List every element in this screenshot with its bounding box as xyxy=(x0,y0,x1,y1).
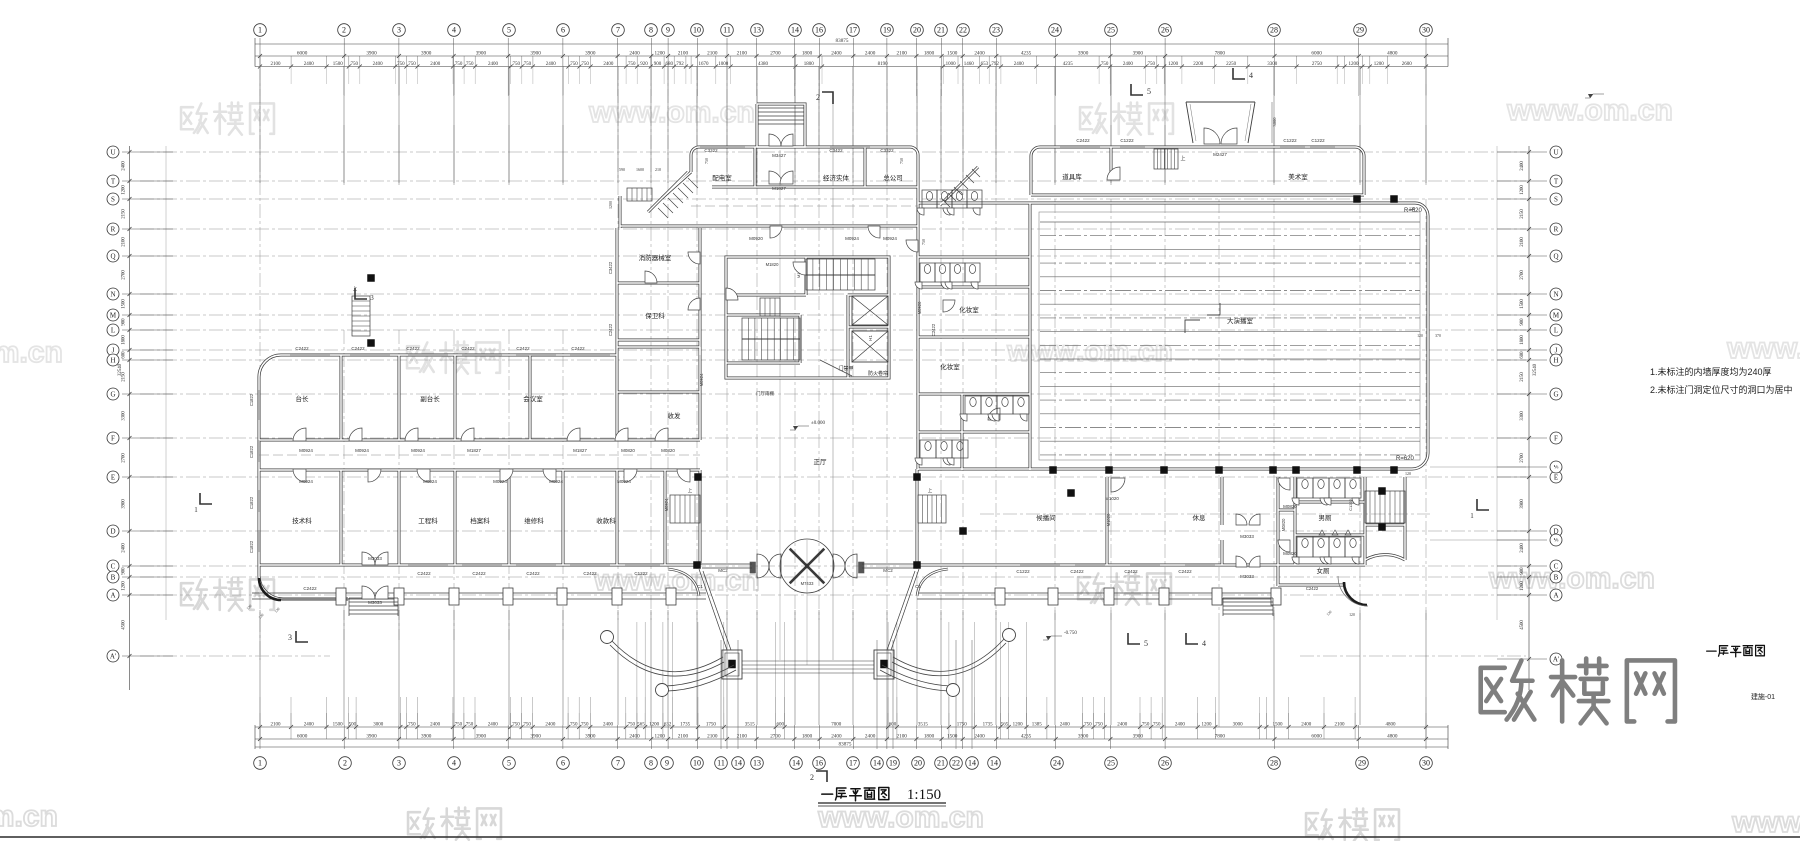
svg-text:590: 590 xyxy=(619,167,625,172)
svg-text:1200: 1200 xyxy=(122,581,127,591)
svg-text:1: 1 xyxy=(1470,512,1474,520)
svg-text:30: 30 xyxy=(1422,26,1430,35)
svg-text:2400: 2400 xyxy=(373,62,384,67)
svg-text:门禁甲: 门禁甲 xyxy=(838,365,853,372)
svg-text:4235: 4235 xyxy=(1063,62,1074,67)
svg-text:6000: 6000 xyxy=(1311,734,1322,740)
svg-text:2200: 2200 xyxy=(1193,62,1204,67)
svg-text:900: 900 xyxy=(654,62,662,67)
svg-text:2400: 2400 xyxy=(488,723,499,728)
svg-text:20: 20 xyxy=(914,759,922,768)
svg-text:120: 120 xyxy=(1417,334,1423,338)
svg-text:30: 30 xyxy=(1422,759,1430,768)
svg-text:S: S xyxy=(1554,195,1558,203)
svg-text:2400: 2400 xyxy=(488,62,499,67)
svg-text:4: 4 xyxy=(452,759,456,768)
svg-text:C3422: C3422 xyxy=(608,261,613,274)
svg-text:M0924: M0924 xyxy=(299,448,313,453)
svg-text:R: R xyxy=(1554,225,1559,233)
svg-text:2.未标注门洞定位尺寸的洞口为居中: 2.未标注门洞定位尺寸的洞口为居中 xyxy=(1650,384,1793,395)
svg-text:900: 900 xyxy=(122,318,127,326)
svg-text:792: 792 xyxy=(676,62,684,67)
svg-text:1200: 1200 xyxy=(1168,62,1179,67)
svg-text:83875: 83875 xyxy=(839,742,852,748)
svg-text:750: 750 xyxy=(628,723,636,728)
svg-text:台长: 台长 xyxy=(296,394,310,403)
svg-text:900: 900 xyxy=(1520,318,1525,326)
svg-text:25: 25 xyxy=(1107,759,1115,768)
svg-text:920: 920 xyxy=(640,62,648,67)
svg-text:C1222: C1222 xyxy=(1348,498,1353,511)
svg-text:3515: 3515 xyxy=(745,723,756,728)
svg-text:M3427: M3427 xyxy=(772,153,786,158)
svg-text:13: 13 xyxy=(753,26,761,35)
svg-text:2400: 2400 xyxy=(865,50,876,56)
svg-text:Q: Q xyxy=(1553,252,1558,260)
svg-text:7000: 7000 xyxy=(831,723,842,728)
svg-text:14: 14 xyxy=(968,759,976,768)
svg-text:1500: 1500 xyxy=(1520,299,1525,309)
svg-text:23: 23 xyxy=(992,26,1000,35)
svg-text:7: 7 xyxy=(616,759,620,768)
svg-text:2100: 2100 xyxy=(707,50,718,56)
svg-text:26: 26 xyxy=(1161,759,1169,768)
svg-text:4235: 4235 xyxy=(1021,734,1032,740)
svg-text:21: 21 xyxy=(937,26,945,35)
svg-text:3300: 3300 xyxy=(1520,411,1525,421)
svg-text:C2422: C2422 xyxy=(931,323,936,336)
svg-text:1735: 1735 xyxy=(680,723,691,728)
svg-text:3000: 3000 xyxy=(1272,117,1277,127)
svg-text:4800: 4800 xyxy=(1387,734,1398,740)
svg-text:M0924: M0924 xyxy=(355,448,369,453)
svg-text:1200: 1200 xyxy=(1374,62,1385,67)
svg-text:E: E xyxy=(1554,473,1558,481)
svg-text:1500: 1500 xyxy=(122,299,127,309)
svg-text:750: 750 xyxy=(523,723,531,728)
svg-text:750: 750 xyxy=(921,239,926,245)
svg-text:2100: 2100 xyxy=(737,50,748,56)
svg-text:653: 653 xyxy=(981,62,989,67)
svg-text:C3422: C3422 xyxy=(829,148,843,153)
svg-text:D: D xyxy=(110,527,115,535)
svg-text:750: 750 xyxy=(512,723,520,728)
svg-text:2400: 2400 xyxy=(1520,543,1525,553)
svg-text:24: 24 xyxy=(1053,759,1061,768)
svg-text:www.om.cn: www.om.cn xyxy=(1488,562,1655,595)
svg-text:T: T xyxy=(111,177,116,185)
svg-text:7: 7 xyxy=(616,26,620,35)
svg-text:750: 750 xyxy=(408,723,416,728)
svg-text:5: 5 xyxy=(1144,639,1148,648)
svg-text:C2422: C2422 xyxy=(1124,569,1138,574)
svg-text:29: 29 xyxy=(1356,26,1364,35)
svg-text:2400: 2400 xyxy=(831,50,842,56)
svg-text:收发: 收发 xyxy=(668,411,682,420)
svg-text:G: G xyxy=(1553,390,1558,398)
svg-text:收款科: 收款科 xyxy=(596,516,616,525)
svg-text:3900: 3900 xyxy=(366,50,377,56)
svg-text:1750: 1750 xyxy=(706,723,717,728)
svg-text:750: 750 xyxy=(397,62,405,67)
svg-text:210: 210 xyxy=(655,167,661,172)
svg-text:M2427: M2427 xyxy=(1213,152,1227,157)
svg-text:1500: 1500 xyxy=(333,62,344,67)
svg-text:C2422: C2422 xyxy=(1178,569,1192,574)
svg-text:10: 10 xyxy=(693,759,701,768)
svg-text:www.om.cn: www.om.cn xyxy=(0,800,58,833)
svg-text:消防器械室: 消防器械室 xyxy=(639,253,672,262)
svg-text:建施-01: 建施-01 xyxy=(1751,692,1775,701)
svg-text:2100: 2100 xyxy=(897,734,908,740)
svg-text:1200: 1200 xyxy=(1013,723,1024,728)
svg-text:3: 3 xyxy=(397,26,401,35)
svg-text:正厅: 正厅 xyxy=(814,458,828,466)
svg-text:M0924: M0924 xyxy=(617,479,631,484)
svg-text:F: F xyxy=(111,434,115,442)
svg-text:750: 750 xyxy=(466,62,474,67)
svg-text:1750: 1750 xyxy=(957,723,968,728)
svg-text:3900: 3900 xyxy=(585,50,596,56)
svg-text:副台长: 副台长 xyxy=(420,394,440,403)
svg-text:1800: 1800 xyxy=(924,734,935,740)
svg-text:750: 750 xyxy=(455,723,463,728)
svg-text:3300: 3300 xyxy=(1267,62,1278,67)
svg-text:A': A' xyxy=(110,652,116,660)
svg-text:3300: 3300 xyxy=(122,411,127,421)
svg-text:L: L xyxy=(1554,326,1558,334)
svg-text:1800: 1800 xyxy=(802,50,813,56)
svg-text:1800: 1800 xyxy=(1520,335,1525,345)
svg-text:5: 5 xyxy=(507,759,511,768)
svg-text:1200: 1200 xyxy=(1202,723,1213,728)
svg-text:2400: 2400 xyxy=(629,50,640,56)
svg-text:www.om.cn: www.om.cn xyxy=(1506,94,1673,127)
svg-text:M0820: M0820 xyxy=(1283,504,1297,509)
svg-text:B: B xyxy=(111,573,116,581)
svg-text:750: 750 xyxy=(1095,723,1103,728)
svg-text:2100: 2100 xyxy=(122,237,127,247)
svg-text:1200: 1200 xyxy=(655,734,666,740)
svg-text:M7433: M7433 xyxy=(801,581,814,586)
svg-text:3900: 3900 xyxy=(1078,734,1089,740)
svg-text:3900: 3900 xyxy=(1520,499,1525,509)
svg-text:C1222: C1222 xyxy=(1016,569,1030,574)
svg-text:M0920: M0920 xyxy=(917,301,922,314)
svg-text:C2422: C2422 xyxy=(571,346,585,351)
svg-text:2400: 2400 xyxy=(629,734,640,740)
svg-text:总公司: 总公司 xyxy=(883,173,903,182)
svg-text:6000: 6000 xyxy=(1311,50,1322,56)
svg-text:H: H xyxy=(1553,356,1558,364)
svg-text:化妆室: 化妆室 xyxy=(959,305,979,314)
svg-text:3900: 3900 xyxy=(421,734,432,740)
svg-text:1200: 1200 xyxy=(122,185,127,195)
svg-text:1000: 1000 xyxy=(946,62,957,67)
svg-text:2400: 2400 xyxy=(974,50,985,56)
svg-text:2250: 2250 xyxy=(1226,62,1237,67)
svg-text:7800: 7800 xyxy=(1215,50,1226,56)
svg-text:M0924: M0924 xyxy=(299,479,313,484)
svg-text:C: C xyxy=(111,562,116,570)
svg-text:3: 3 xyxy=(370,294,374,302)
svg-text:1460: 1460 xyxy=(964,62,975,67)
svg-text:⅙: ⅙ xyxy=(1554,538,1559,544)
svg-text:C2422: C2422 xyxy=(526,571,540,576)
svg-text:C1822: C1822 xyxy=(249,540,254,553)
svg-text:C: C xyxy=(1554,562,1559,570)
svg-text:500: 500 xyxy=(349,723,357,728)
svg-text:工程科: 工程科 xyxy=(418,516,438,525)
svg-text:900: 900 xyxy=(122,567,127,575)
svg-text:保卫科: 保卫科 xyxy=(645,311,665,320)
svg-text:C2422: C2422 xyxy=(472,571,486,576)
svg-text:2700: 2700 xyxy=(1520,453,1525,463)
svg-text:3: 3 xyxy=(288,633,292,642)
svg-text:4800: 4800 xyxy=(1386,723,1397,728)
svg-text:C2422: C2422 xyxy=(461,346,475,351)
svg-text:6000: 6000 xyxy=(297,734,308,740)
svg-text:750: 750 xyxy=(455,62,463,67)
svg-text:16: 16 xyxy=(815,26,823,35)
svg-text:19: 19 xyxy=(889,759,897,768)
svg-text:750: 750 xyxy=(1101,62,1109,67)
svg-text:C2422: C2422 xyxy=(351,346,365,351)
svg-text:1.未标注的内墙厚度均为240厚: 1.未标注的内墙厚度均为240厚 xyxy=(1650,366,1772,377)
svg-text:C1822: C1822 xyxy=(249,393,254,406)
svg-text:C2422: C2422 xyxy=(516,346,530,351)
svg-text:2: 2 xyxy=(342,26,346,35)
svg-text:M0924: M0924 xyxy=(549,479,563,484)
svg-text:2400: 2400 xyxy=(304,62,315,67)
svg-text:-0.750: -0.750 xyxy=(1064,631,1077,636)
svg-text:MC2: MC2 xyxy=(883,568,893,573)
svg-text:750: 750 xyxy=(513,62,521,67)
svg-text:F: F xyxy=(1554,434,1558,442)
svg-text:M1820: M1820 xyxy=(766,262,779,267)
svg-text:2400: 2400 xyxy=(1175,723,1186,728)
svg-text:2150: 2150 xyxy=(1520,372,1525,382)
svg-text:1670: 1670 xyxy=(699,62,710,67)
svg-text:C1822: C1822 xyxy=(249,496,254,509)
svg-text:792: 792 xyxy=(991,62,999,67)
svg-text:www.om.cn: www.om.cn xyxy=(0,336,63,369)
svg-text:2100: 2100 xyxy=(678,50,689,56)
svg-text:化妆室: 化妆室 xyxy=(940,362,960,371)
svg-text:2100: 2100 xyxy=(1520,237,1525,247)
svg-text:R: R xyxy=(111,225,116,233)
svg-text:C1222: C1222 xyxy=(1311,138,1325,143)
svg-text:M0920: M0920 xyxy=(749,236,763,241)
svg-text:7800: 7800 xyxy=(1215,734,1226,740)
svg-text:11: 11 xyxy=(717,759,725,768)
svg-text:C2422: C2422 xyxy=(303,586,317,591)
svg-text:3900: 3900 xyxy=(366,734,377,740)
svg-text:120: 120 xyxy=(1349,613,1355,617)
svg-text:750: 750 xyxy=(1142,723,1150,728)
svg-text:750: 750 xyxy=(570,62,578,67)
svg-text:750: 750 xyxy=(581,723,589,728)
svg-text:R=620: R=620 xyxy=(1404,208,1423,214)
svg-text:750: 750 xyxy=(1153,723,1161,728)
svg-text:1200: 1200 xyxy=(649,723,660,728)
svg-text:G: G xyxy=(110,390,115,398)
svg-text:4500: 4500 xyxy=(1520,620,1525,630)
svg-text:3000: 3000 xyxy=(373,723,384,728)
svg-text:16: 16 xyxy=(815,759,823,768)
svg-text:3000: 3000 xyxy=(1233,723,1244,728)
svg-text:2400: 2400 xyxy=(430,723,441,728)
svg-text:1800: 1800 xyxy=(804,62,815,67)
svg-text:N: N xyxy=(110,290,115,298)
svg-text:www.om.cn: www.om.cn xyxy=(1726,332,1800,365)
svg-text:2700: 2700 xyxy=(770,50,781,56)
svg-text:4: 4 xyxy=(1249,71,1253,80)
svg-text:M0820: M0820 xyxy=(1281,518,1286,531)
svg-text:19: 19 xyxy=(883,26,891,35)
svg-text:J: J xyxy=(1555,346,1558,354)
svg-text:M1827: M1827 xyxy=(573,448,587,453)
svg-text:M3033: M3033 xyxy=(368,600,382,605)
svg-text:1200: 1200 xyxy=(655,50,666,56)
svg-text:2100: 2100 xyxy=(1335,723,1346,728)
svg-text:2600: 2600 xyxy=(1402,62,1413,67)
svg-text:U: U xyxy=(110,148,115,156)
svg-text:13: 13 xyxy=(753,759,761,768)
svg-text:2400: 2400 xyxy=(1014,62,1025,67)
svg-text:A: A xyxy=(1553,591,1558,599)
svg-text:M0924: M0924 xyxy=(664,498,669,511)
svg-text:120: 120 xyxy=(1405,471,1411,476)
svg-text:1385: 1385 xyxy=(1032,723,1043,728)
svg-text:22: 22 xyxy=(959,26,967,35)
svg-text:21: 21 xyxy=(937,759,945,768)
svg-text:技术科: 技术科 xyxy=(292,516,312,525)
svg-text:14: 14 xyxy=(791,26,799,35)
svg-text:M0924: M0924 xyxy=(493,479,507,484)
svg-text:道具库: 道具库 xyxy=(1062,172,1082,181)
svg-text:3: 3 xyxy=(397,759,401,768)
svg-text:20: 20 xyxy=(913,26,921,35)
svg-text:1:150: 1:150 xyxy=(907,787,941,803)
svg-text:J: J xyxy=(112,346,115,354)
svg-text:4380: 4380 xyxy=(758,62,769,67)
svg-text:1: 1 xyxy=(258,26,262,35)
svg-text:M0924: M0924 xyxy=(883,236,897,241)
svg-text:14: 14 xyxy=(792,759,800,768)
svg-text:上: 上 xyxy=(928,487,933,493)
svg-text:2400: 2400 xyxy=(603,723,614,728)
svg-text:E: E xyxy=(111,473,115,481)
svg-text:⅙: ⅙ xyxy=(1554,465,1559,471)
svg-text:28: 28 xyxy=(1270,26,1278,35)
svg-text:C2422: C2422 xyxy=(295,346,309,351)
svg-text:大演播室: 大演播室 xyxy=(1227,316,1254,325)
svg-text:2400: 2400 xyxy=(122,543,127,553)
svg-text:C2422: C2422 xyxy=(406,346,420,351)
svg-text:17: 17 xyxy=(849,759,857,768)
svg-text:H: H xyxy=(110,356,115,364)
svg-text:维修科: 维修科 xyxy=(524,516,544,525)
svg-text:2400: 2400 xyxy=(545,723,556,728)
svg-text:防火卷帘: 防火卷帘 xyxy=(868,370,888,377)
svg-text:3900: 3900 xyxy=(1133,50,1144,56)
svg-text:M1020: M1020 xyxy=(1105,496,1119,501)
svg-text:C3322: C3322 xyxy=(704,148,718,153)
svg-text:C2422: C2422 xyxy=(608,323,613,336)
svg-text:1800: 1800 xyxy=(122,335,127,345)
svg-text:M0924: M0924 xyxy=(411,448,425,453)
svg-text:M1827: M1827 xyxy=(772,186,786,191)
svg-text:750: 750 xyxy=(524,62,532,67)
svg-text:83875: 83875 xyxy=(836,38,849,44)
svg-text:6000: 6000 xyxy=(297,50,308,56)
svg-text:600: 600 xyxy=(1520,351,1525,359)
svg-text:C1: C1 xyxy=(915,584,921,589)
svg-text:H1: H1 xyxy=(868,335,873,341)
svg-text:M0924: M0924 xyxy=(845,236,859,241)
svg-text:1800: 1800 xyxy=(802,734,813,740)
svg-text:750: 750 xyxy=(466,723,474,728)
svg-text:2400: 2400 xyxy=(1301,723,1312,728)
svg-text:C3322: C3322 xyxy=(880,148,894,153)
svg-text:4800: 4800 xyxy=(1387,50,1398,56)
svg-text:4235: 4235 xyxy=(1021,50,1032,56)
svg-text:2100: 2100 xyxy=(897,50,908,56)
svg-text:美术室: 美术室 xyxy=(1288,172,1308,181)
svg-text:2400: 2400 xyxy=(974,734,985,740)
svg-text:1: 1 xyxy=(194,506,198,514)
svg-text:A: A xyxy=(110,591,115,599)
svg-text:3900: 3900 xyxy=(476,734,487,740)
svg-text:C1222: C1222 xyxy=(1283,138,1297,143)
svg-text:32540: 32540 xyxy=(1533,363,1538,376)
svg-text:3900: 3900 xyxy=(1133,734,1144,740)
svg-text:4: 4 xyxy=(1202,639,1206,648)
svg-text:C1822: C1822 xyxy=(249,445,254,458)
svg-text:2700: 2700 xyxy=(1520,270,1525,280)
svg-text:2400: 2400 xyxy=(1060,723,1071,728)
svg-text:750: 750 xyxy=(1084,723,1092,728)
svg-text:2400: 2400 xyxy=(430,62,441,67)
svg-text:会议室: 会议室 xyxy=(523,394,543,403)
svg-text:1200: 1200 xyxy=(1520,581,1525,591)
svg-text:14: 14 xyxy=(873,759,881,768)
svg-text:750: 750 xyxy=(581,62,589,67)
svg-text:2400: 2400 xyxy=(1117,723,1128,728)
svg-text:5: 5 xyxy=(507,26,511,35)
svg-text:上: 上 xyxy=(1180,155,1185,162)
svg-text:配电室: 配电室 xyxy=(712,173,732,182)
svg-text:C2422: C2422 xyxy=(583,571,597,576)
svg-text:4: 4 xyxy=(452,26,456,35)
svg-text:M0820: M0820 xyxy=(661,448,675,453)
svg-text:2: 2 xyxy=(816,93,820,102)
svg-text:M3033: M3033 xyxy=(1240,574,1254,579)
svg-text:680: 680 xyxy=(665,62,673,67)
svg-text:MC2: MC2 xyxy=(718,568,728,573)
svg-text:A': A' xyxy=(1553,655,1559,663)
svg-text:750: 750 xyxy=(351,62,359,67)
svg-text:8: 8 xyxy=(649,759,653,768)
svg-text:Q: Q xyxy=(110,252,115,260)
svg-text:8: 8 xyxy=(649,26,653,35)
svg-text:6: 6 xyxy=(561,759,565,768)
svg-text:M1827: M1827 xyxy=(467,448,481,453)
svg-text:M0924: M0924 xyxy=(423,479,437,484)
svg-text:3900: 3900 xyxy=(530,734,541,740)
svg-text:2400: 2400 xyxy=(831,734,842,740)
